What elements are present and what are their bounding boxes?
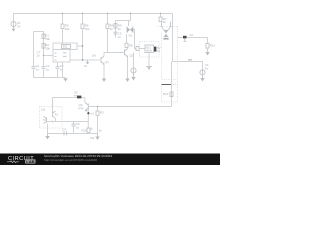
diac D1 (127, 27, 133, 34)
lamp LS1 (162, 22, 171, 40)
svg-text:1u: 1u (46, 68, 50, 72)
ground under V1 (12, 27, 16, 32)
node emitter dot (87, 112, 89, 114)
switch S2 (53, 96, 85, 99)
wire y52 (104, 52, 124, 54)
wire long feedback (89, 106, 172, 108)
svg-text:T3: T3 (43, 118, 47, 122)
svg-text:LM: LM (41, 108, 46, 112)
wire gnd rail (34, 77, 66, 79)
svg-text:2N: 2N (92, 54, 96, 58)
wire top rail (14, 13, 173, 15)
svg-text:C4: C4 (62, 127, 66, 131)
probe dashed horizontal mid (162, 79, 178, 81)
wire tap to IC (44, 55, 54, 57)
resistor R11 (136, 46, 139, 50)
svg-text:1k: 1k (118, 27, 122, 31)
svg-text:555: 555 (63, 45, 68, 49)
footer bar (0, 154, 220, 166)
svg-text:5V: 5V (205, 66, 209, 70)
capacitor C3 (56, 62, 60, 78)
wire Q2 emitter (127, 57, 129, 79)
voltage source V1 (11, 14, 16, 27)
transistor T3 (44, 117, 47, 124)
svg-text:10k: 10k (85, 27, 90, 31)
wire R8 up (126, 34, 128, 43)
resistor R1 (42, 34, 45, 39)
probe box right (162, 85, 178, 103)
wire IC gnd drop (62, 62, 64, 78)
ground bottom right (95, 134, 99, 141)
capacitor C6 (72, 122, 76, 134)
wire osc drop (130, 14, 132, 21)
wire C1 bottom (33, 68, 35, 77)
wire out right (173, 61, 203, 63)
ground arrow Q1 (102, 79, 106, 83)
svg-text:LAB: LAB (26, 159, 34, 164)
transistor Q3 (85, 103, 88, 112)
wire Q2 collector (127, 47, 129, 48)
node rail-R5 (62, 13, 63, 14)
wire T2 emitter (55, 119, 57, 122)
capacitor C5 (114, 32, 118, 34)
wire IC pin right upper (77, 45, 83, 47)
node rail-R4 (107, 13, 108, 14)
capacitor C2 (42, 66, 46, 68)
resistor R10 chain (87, 128, 90, 134)
svg-text:1u: 1u (76, 126, 80, 130)
node rail-R7 (160, 13, 161, 14)
wire Q1 collector (103, 53, 105, 57)
logo LAB badge (25, 159, 36, 163)
wire osc top (116, 20, 131, 22)
probe dashed vertical left (161, 34, 163, 80)
ground meter (146, 67, 152, 71)
resistor R3 (96, 107, 99, 134)
svg-text:pnp: pnp (79, 106, 84, 110)
node feedback-R3 (97, 106, 98, 107)
transistor T2 (53, 111, 56, 119)
svg-text:1u: 1u (36, 68, 40, 72)
node divider tap (43, 55, 44, 56)
svg-text:4kHz: 4kHz (146, 49, 152, 52)
resistor R13 (170, 92, 173, 97)
resistor R9 (114, 24, 117, 29)
voltage source V3 (131, 53, 136, 74)
probe dashed horizontal top (158, 26, 178, 28)
wire meter gnd drop (148, 53, 150, 67)
ground under V2 (200, 75, 204, 82)
svg-text:Q1: Q1 (105, 60, 109, 64)
ground under V3 (131, 73, 135, 80)
wire IC out (70, 59, 100, 61)
svg-text:10k: 10k (45, 47, 50, 51)
node probe-top (171, 84, 172, 85)
wire diac stub (128, 21, 130, 27)
dashed macro box LM (40, 107, 63, 129)
buzzer probe box (140, 42, 160, 58)
transistor Q1 (101, 56, 105, 65)
wire macro top (52, 98, 54, 113)
transistor Q2 (125, 49, 129, 58)
wire diac to meter (134, 30, 137, 49)
node out-R6 (82, 59, 83, 60)
svg-text:1n: 1n (118, 35, 122, 39)
resistor R12 (206, 38, 209, 53)
wire right vertical (171, 62, 173, 107)
resistor R8 (125, 43, 128, 47)
svg-text:10k: 10k (45, 37, 50, 41)
switch S1 (178, 36, 208, 42)
wire osc left leg (115, 21, 117, 38)
resistor R2 (42, 44, 45, 49)
ground macro (45, 134, 49, 140)
resistor R5 (61, 14, 64, 45)
svg-text:1k: 1k (163, 20, 167, 24)
svg-text:R12: R12 (210, 43, 216, 47)
svg-text:Q2: Q2 (130, 54, 134, 58)
wire bottom rail (48, 133, 98, 135)
svg-text:1k: 1k (99, 129, 103, 133)
wire meter-in (139, 48, 145, 50)
svg-text:10k: 10k (65, 27, 70, 31)
wire macro bottom drop (47, 124, 49, 134)
svg-text:S1: S1 (190, 33, 194, 37)
resistor R4 (106, 14, 109, 53)
svg-text:5V: 5V (17, 24, 21, 28)
svg-text:R8: R8 (129, 43, 133, 47)
wire Q1 emitter (103, 64, 105, 79)
svg-text:R13: R13 (163, 92, 169, 96)
wire lamp right lead (171, 26, 173, 28)
wire rail drop right (172, 14, 174, 62)
IC U1 body (53, 43, 77, 62)
wire Q3 base stub (88, 106, 89, 108)
svg-text:fb1: fb1 (91, 136, 95, 140)
resistor R6 (81, 14, 84, 61)
wire cap chain left (33, 32, 35, 67)
svg-text:R3: R3 (100, 111, 104, 115)
ground arrow Q2 (125, 79, 129, 83)
svg-text:T2: T2 (55, 112, 59, 116)
probe dashed vertical right (177, 27, 179, 85)
svg-text:D1: D1 (129, 34, 133, 38)
wire Q3 collector (84, 98, 86, 103)
capacitor C4 series (64, 131, 66, 135)
ground left rail (63, 78, 67, 82)
wire cap chain top (34, 31, 44, 33)
ground right top (205, 52, 209, 56)
voltage source V2 (200, 62, 205, 76)
ground tick mid (86, 60, 89, 64)
node rail-osc (130, 13, 131, 14)
svg-text:e1: e1 (91, 112, 95, 116)
wire cap chain mid (43, 32, 45, 67)
svg-text:1k: 1k (110, 27, 114, 31)
resistor R7 (159, 14, 162, 22)
svg-text:out: out (188, 57, 192, 61)
wire Q3 emitter (87, 110, 89, 129)
wire C2 bottom (43, 68, 45, 77)
logo squiggle (7, 161, 19, 163)
svg-text:1n: 1n (37, 54, 41, 58)
node rail-R6 (82, 13, 83, 14)
wire mirror rail (47, 121, 89, 123)
node mirror (52, 121, 53, 122)
capacitor C1 (32, 66, 36, 68)
node pin-R6 (82, 45, 83, 46)
svg-text:R10: R10 (82, 129, 88, 133)
svg-text:http://circuitlab.com/c/37167h: http://circuitlab.com/c/37167hvm22948 (44, 158, 97, 162)
